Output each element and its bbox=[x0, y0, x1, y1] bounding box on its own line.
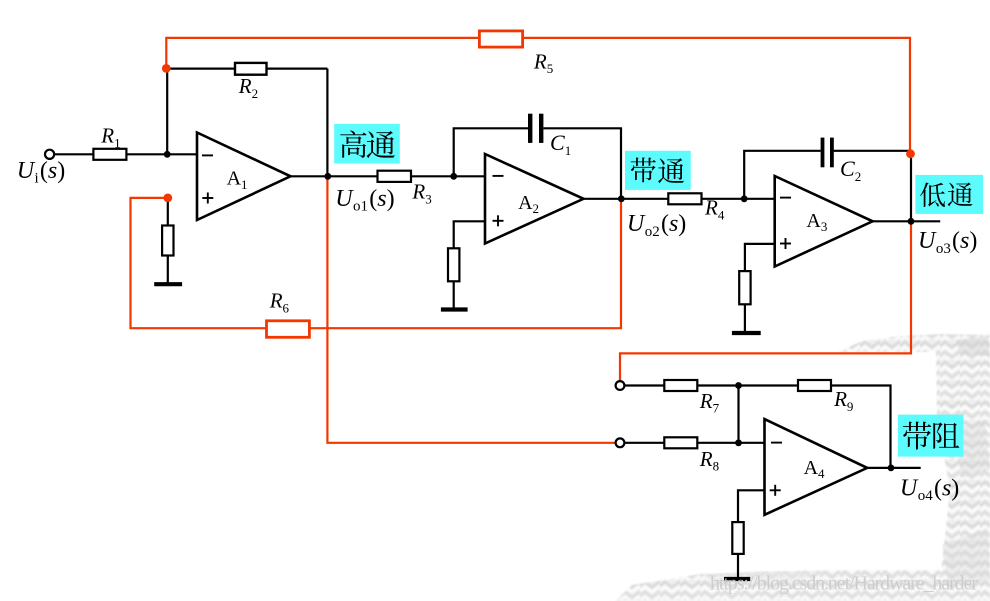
resistor R4 bbox=[668, 193, 701, 204]
watermark gray band upper right bbox=[838, 334, 990, 352]
wire R4 to A3 inverting input bbox=[702, 198, 775, 200]
ground symbol A1 bbox=[154, 282, 182, 286]
resistor R3 bbox=[378, 171, 412, 182]
resistor R1 bbox=[93, 149, 126, 160]
ground symbol A2 bbox=[441, 307, 468, 311]
ground leg under A4 + input bbox=[732, 522, 743, 554]
ground leg under A2 + input bbox=[448, 248, 459, 281]
ground leg under A1 + input bbox=[167, 198, 169, 226]
wire R2 branch down to U_o1 node bbox=[326, 69, 328, 177]
wire A2 noninverting input stub bbox=[454, 221, 485, 248]
wire terminal to R8 bbox=[624, 442, 664, 444]
wire R2 right bbox=[266, 67, 327, 69]
label 带阻 char 带 bbox=[903, 422, 931, 450]
wire R6 net right segment bbox=[309, 200, 621, 328]
A4 plus mark bbox=[770, 489, 781, 491]
node R7/R9 junction bbox=[735, 382, 742, 389]
wire input to R1 bbox=[54, 153, 93, 155]
red node A1 + input bbox=[163, 194, 172, 203]
red node R2/R5 junction bbox=[162, 64, 171, 73]
input terminal circle bbox=[45, 150, 54, 159]
node A4 inverting input junction bbox=[735, 439, 742, 446]
watermark gray right column bbox=[936, 352, 990, 601]
capacitor C2 plates bbox=[821, 138, 825, 168]
wire R5 feedback net (red): A1 inverting node to low-pass output bbox=[166, 38, 910, 150]
resistor R8 bbox=[664, 437, 697, 448]
label 高通 char 通 bbox=[367, 131, 395, 158]
label 高通 char 高 bbox=[340, 131, 366, 158]
label 带通 char 通 bbox=[658, 158, 684, 183]
svg-text:https://blog.csdn.net/Hardware: https://blog.csdn.net/Hardware_harder bbox=[710, 573, 978, 595]
A4 minus mark bbox=[771, 442, 782, 444]
terminal circle to R8 bbox=[616, 438, 625, 447]
wire A2 output to R4 bbox=[584, 198, 669, 200]
wire junction R7/R8 vertical bbox=[737, 386, 739, 443]
A1 minus mark bbox=[202, 154, 213, 156]
resistor R7 bbox=[664, 380, 697, 391]
wire A3 noninverting input stub bbox=[745, 244, 775, 271]
watermark darker patches bbox=[956, 336, 990, 356]
wire C1 feedback loop left+top bbox=[454, 128, 528, 176]
node A1 inverting input junction bbox=[164, 151, 171, 158]
red node R5/C2 low-pass junction bbox=[906, 149, 915, 158]
highlight box 带通 (band-pass) bbox=[625, 151, 691, 190]
wire R8 to A4 inverting input bbox=[697, 442, 764, 444]
wire to R2 left bbox=[166, 67, 236, 69]
label 带阻 char 阻 bbox=[933, 423, 959, 449]
op-amp A2 bbox=[485, 154, 584, 244]
ground symbol A3 bbox=[732, 331, 761, 335]
wire R9 right and down to A4 output bbox=[831, 386, 891, 468]
wire C2 feedback loop right+down to A3 output bbox=[834, 151, 911, 222]
A2 minus mark bbox=[493, 175, 504, 177]
op-amp A1 bbox=[197, 133, 291, 221]
label 低通 char 低 bbox=[920, 183, 945, 207]
resistor R6 bbox=[267, 321, 310, 338]
A3 minus mark bbox=[780, 197, 791, 199]
terminal circle to R7 bbox=[616, 381, 625, 390]
op-amp A3 bbox=[775, 176, 873, 267]
resistor R5 bbox=[479, 31, 522, 47]
highlight box 带阻 (band-stop) bbox=[898, 415, 964, 457]
wire A1 output to R3 bbox=[291, 175, 378, 177]
label 带通 char 带 bbox=[631, 158, 656, 183]
op-amp A4 bbox=[765, 419, 868, 515]
ground symbol A4 bbox=[724, 577, 750, 581]
wire A4 output stub bbox=[867, 467, 921, 469]
highlight box 高通 (high-pass) bbox=[334, 124, 400, 163]
wire R6 feedback net (red): A1 + input to band-pass output bbox=[131, 198, 267, 328]
wire (red): low-pass output U_o3 down and left to terminal of R7 bbox=[620, 221, 911, 381]
highlight box 低通 (low-pass) bbox=[915, 175, 983, 214]
wire R3 to A2 inverting input bbox=[411, 175, 485, 177]
wire R1 to A1 inverting input bbox=[126, 153, 197, 155]
node R3/C1 junction bbox=[450, 173, 457, 180]
wire A1 inv node up to R2 branch bbox=[166, 68, 168, 154]
wire R7 to R9 bbox=[697, 384, 798, 386]
wire (red): high-pass output U_o1 down to terminal of R8 bbox=[327, 176, 615, 443]
capacitor C1 plates bbox=[528, 114, 532, 143]
node U_o4 band-stop output bbox=[888, 465, 895, 472]
watermark gray bottom strip bbox=[615, 570, 990, 601]
svg-text:Ui(s): Ui(s) bbox=[17, 158, 66, 187]
wire terminal to R7 bbox=[624, 384, 664, 386]
wire C1 feedback loop right+down to A2 output bbox=[543, 128, 621, 199]
ground leg under A3 + input bbox=[739, 271, 750, 304]
node U_o2 band-pass output bbox=[618, 195, 625, 202]
node R4/C2 junction bbox=[741, 195, 748, 202]
A1 plus mark bbox=[202, 197, 213, 199]
wire A4 noninverting input stub bbox=[738, 490, 765, 522]
wire C2 feedback loop left+top bbox=[744, 151, 820, 199]
wire A3 output stub bbox=[873, 220, 941, 222]
label 低通 char 通 bbox=[948, 183, 973, 207]
node U_o1 high-pass output bbox=[324, 173, 331, 180]
A2 plus mark bbox=[493, 220, 504, 222]
resistor R9 bbox=[798, 380, 831, 391]
A3 plus mark bbox=[780, 243, 791, 245]
node U_o3 low-pass output bbox=[908, 218, 915, 225]
resistor R2 bbox=[235, 63, 267, 75]
